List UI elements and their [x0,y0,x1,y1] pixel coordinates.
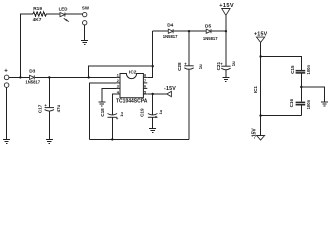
svg-text:TC1044SCPA: TC1044SCPA [116,98,148,104]
svg-text:2: 2 [117,79,119,83]
svg-text:+15V: +15V [219,3,234,9]
svg-text:1u: 1u [231,61,236,66]
svg-text:8: 8 [144,74,146,78]
svg-text:6: 6 [144,85,146,89]
svg-text:SW: SW [82,6,90,11]
svg-text:R19: R19 [33,6,42,12]
svg-text:47u: 47u [56,105,61,113]
svg-text:C28: C28 [177,62,182,71]
svg-text:3: 3 [117,85,119,89]
svg-text:C15: C15 [290,65,295,74]
svg-text:1N5817: 1N5817 [163,34,178,39]
svg-text:+15V: +15V [254,32,268,38]
svg-text:100n: 100n [306,65,311,75]
svg-text:C16: C16 [289,99,294,108]
svg-text:C17: C17 [37,104,42,113]
svg-text:1u: 1u [119,111,124,116]
svg-text:+: + [4,69,8,75]
svg-text:D4: D4 [167,23,173,29]
svg-text:4K7: 4K7 [33,17,42,23]
svg-text:IC2: IC2 [129,69,137,75]
svg-text:1u: 1u [198,64,203,69]
svg-text:1u: 1u [158,109,163,114]
svg-text:-15V: -15V [164,86,176,92]
svg-text:LED: LED [59,7,68,12]
svg-text:5: 5 [144,90,146,94]
svg-text:C21: C21 [216,62,221,71]
svg-text:100n: 100n [306,99,311,109]
svg-text:C18: C18 [100,108,105,117]
svg-text:7: 7 [144,79,146,83]
svg-text:-15V: -15V [252,128,258,139]
svg-text:1N5817: 1N5817 [203,36,218,41]
svg-text:IC1: IC1 [253,86,258,94]
svg-text:C19: C19 [139,108,144,117]
svg-text:D3: D3 [29,69,35,75]
svg-text:1N5817: 1N5817 [25,80,40,85]
svg-text:D5: D5 [205,24,211,30]
svg-text:1: 1 [117,74,119,78]
